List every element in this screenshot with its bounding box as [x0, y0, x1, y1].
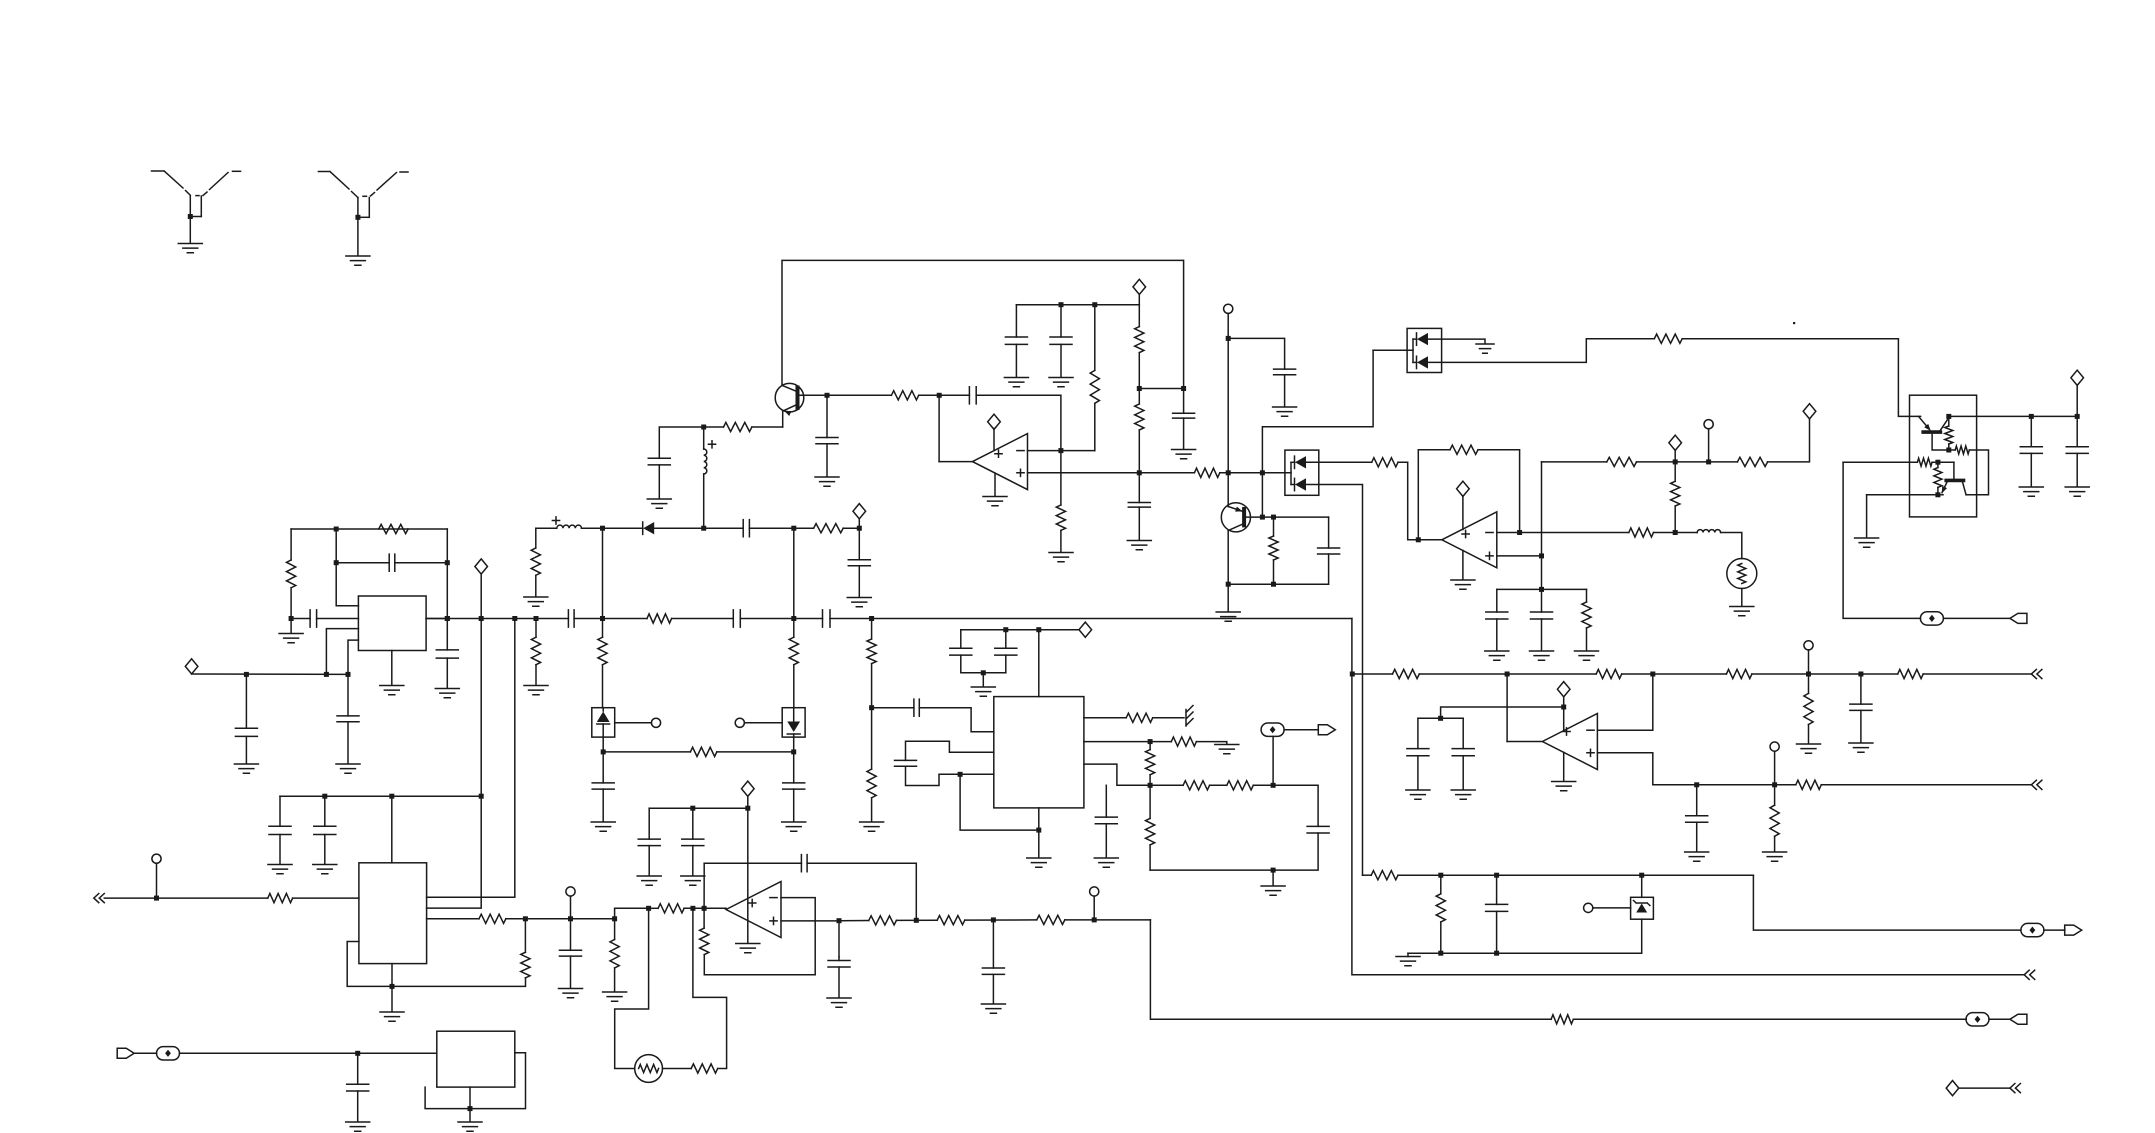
wire: [1417, 756, 1419, 790]
wire: [1060, 451, 1062, 505]
ground: [1575, 651, 1599, 660]
resistor R57: [1551, 1015, 1573, 1024]
wire: [1496, 911, 1498, 953]
node: [334, 527, 339, 532]
wire: [1593, 907, 1631, 909]
wire: [391, 986, 393, 1011]
resistor R51: [658, 904, 684, 913]
capacitor C23: [1318, 548, 1340, 554]
resistor R6: [1135, 404, 1144, 430]
wire: [1328, 517, 1330, 548]
offpage chevron: [2010, 1084, 2021, 1093]
wire bus2: [1752, 673, 1898, 675]
wire pinR2: [1084, 741, 1171, 743]
node: [1673, 530, 1678, 535]
wire: [1398, 874, 1753, 876]
plus label U1: [1017, 469, 1024, 476]
wire: [1441, 707, 1564, 718]
ground: [681, 876, 705, 885]
node bus: [534, 616, 539, 621]
node: [914, 918, 919, 923]
wire right pin loop: [425, 1053, 525, 1109]
plus mark: [708, 441, 715, 448]
resistor R24: [1607, 457, 1637, 466]
wire: [1753, 875, 2021, 930]
node: [523, 916, 528, 921]
resistor R31: [1934, 468, 1942, 488]
power diamond D10: [742, 781, 755, 796]
node: [1148, 739, 1153, 744]
wire: [1496, 619, 1498, 651]
ground: [1261, 886, 1285, 895]
resistor R8: [814, 524, 844, 533]
wire pinA: [919, 708, 994, 732]
ground: [981, 1004, 1005, 1013]
ground: [1406, 790, 1430, 799]
wire: [871, 798, 873, 822]
wire top rail: [291, 528, 447, 530]
wire: [982, 673, 984, 687]
wire noninverting input U2: [1497, 555, 1542, 557]
thermistor lamp TH1: [1727, 559, 1757, 589]
plus label U3: [1587, 749, 1594, 756]
resistor R53: [700, 928, 709, 955]
wire: [793, 737, 795, 783]
wire: [104, 897, 267, 899]
node: [389, 794, 394, 799]
minus label U3: [1587, 729, 1594, 731]
resistor R17: [379, 524, 408, 533]
power diamond D4: [185, 659, 198, 674]
wire pin stub: [347, 942, 392, 987]
wire: [1284, 729, 1318, 731]
node bus: [445, 616, 450, 621]
zener diode Z1 in box: [1631, 897, 1654, 919]
oval ferrite FB2: [1261, 723, 1284, 736]
transistor Q3B: [1942, 462, 1966, 495]
wire: [535, 665, 537, 685]
node: [355, 215, 360, 220]
wire: [446, 529, 448, 619]
wire: [965, 919, 1037, 921]
wire: [1741, 589, 1743, 607]
resistor R3: [1090, 370, 1099, 403]
wire: [1774, 751, 1776, 805]
wire: [992, 920, 994, 968]
wire power stem U6: [747, 808, 749, 943]
wire: [961, 655, 1006, 673]
wire: [1149, 785, 1151, 818]
resistor R12: [598, 637, 607, 665]
wire: [245, 674, 247, 728]
ground: [2019, 487, 2043, 496]
wire: [2076, 416, 2078, 446]
wire: [1328, 554, 1330, 584]
ground: [1094, 858, 1118, 867]
capacitor C25: [1531, 612, 1553, 619]
wire: [1105, 824, 1107, 858]
wire: [279, 796, 281, 826]
node: [1438, 716, 1443, 721]
wire: [1138, 353, 1140, 389]
wire: [1065, 919, 1151, 921]
wire: [290, 619, 292, 634]
wire: [1210, 784, 1227, 786]
power pin U1: [993, 429, 995, 451]
ground: [847, 598, 871, 607]
ground: [346, 256, 370, 265]
wire: [1094, 305, 1096, 371]
ground: [1855, 538, 1879, 547]
ground: [1027, 858, 1051, 867]
wire: [279, 835, 281, 865]
plus power U1: [995, 450, 1002, 457]
wire: [614, 919, 616, 940]
wire: [839, 920, 869, 922]
wire: [1496, 875, 1498, 904]
wire: [1641, 919, 1643, 953]
resistor R19: [1269, 536, 1278, 560]
wire pin3: [427, 918, 479, 920]
wire: [906, 766, 994, 785]
wire: [1843, 462, 1920, 618]
wire: [1220, 472, 1263, 474]
wire: [1496, 589, 1498, 612]
node: [1806, 672, 1811, 677]
node: [1271, 868, 1276, 873]
wire: [717, 751, 794, 753]
node: [825, 393, 830, 398]
ground: [1476, 344, 1494, 353]
wire V+ rail: [1016, 304, 1139, 306]
ground: [603, 992, 627, 1001]
resistor R56: [1037, 915, 1065, 924]
capacitor C39: [560, 950, 582, 956]
wire: [2030, 416, 2032, 446]
wire: [1150, 833, 1318, 870]
ground: [647, 499, 671, 508]
connector flag: [2065, 925, 2082, 935]
node: [1858, 672, 1863, 677]
wire: [2044, 929, 2065, 931]
wire: [1674, 506, 1676, 533]
wire: [858, 519, 860, 560]
wire: [1708, 429, 1710, 462]
wire: [793, 789, 795, 821]
resistor R23: [1629, 528, 1654, 537]
wire: [1227, 313, 1229, 504]
node: [869, 705, 874, 710]
node: [244, 672, 249, 677]
capacitor C42: [828, 961, 850, 968]
node: [468, 1106, 473, 1111]
node: [1092, 917, 1097, 922]
node: [1706, 459, 1711, 464]
ground: [1685, 852, 1709, 861]
ground: [1216, 612, 1240, 621]
antenna AN2: [318, 172, 408, 218]
node: [958, 772, 963, 777]
ground pin U1: [994, 473, 996, 496]
power diamond D11: [1946, 1081, 1959, 1096]
connector flag: [2010, 1014, 2027, 1024]
ground: [1396, 957, 1420, 966]
wire: [602, 789, 604, 821]
node: [600, 526, 605, 531]
ground: [1763, 852, 1787, 861]
capacitor C41: [682, 839, 704, 846]
wire: [1138, 305, 1140, 327]
wire V+ rail: [961, 629, 1079, 631]
resistor R40: [1171, 737, 1196, 746]
node bus: [479, 616, 484, 621]
minus label U1: [1017, 450, 1024, 452]
wire: [1696, 785, 1698, 816]
wire: [357, 217, 359, 255]
wire: [1005, 655, 1007, 673]
ground: [313, 865, 337, 874]
wire bottom pin: [391, 651, 393, 686]
IC U4: [994, 697, 1084, 808]
ground: [1127, 541, 1151, 550]
node: [154, 896, 159, 901]
terminal: [651, 718, 660, 727]
IC U5c: [437, 1031, 515, 1087]
ground: [860, 822, 884, 831]
emitter arrow Q3A: [1924, 424, 1931, 431]
node: [1639, 873, 1644, 878]
capacitor C17: [310, 610, 317, 627]
node: [1935, 460, 1940, 465]
node: [1271, 515, 1276, 520]
capacitor C4: [1128, 503, 1150, 508]
LED DB in box: [782, 708, 805, 737]
power diamond U3: [1557, 682, 1570, 697]
capacitor C11: [733, 610, 740, 627]
wire: [648, 808, 650, 839]
wire: [1497, 588, 1587, 590]
capacitor C37: [1095, 817, 1117, 824]
wire: [919, 394, 970, 396]
terminal: [152, 854, 161, 863]
wire: [192, 673, 348, 675]
capacitor C5: [1005, 337, 1027, 344]
wire: [1094, 403, 1096, 450]
ground: [1049, 553, 1073, 562]
wire emitter Q1: [752, 426, 783, 428]
node: [355, 1051, 360, 1056]
power pin U3: [1563, 697, 1565, 731]
wire: [1015, 344, 1017, 377]
node: [791, 749, 796, 754]
wire cap rail: [336, 562, 389, 564]
wire: [838, 921, 840, 957]
ground: [1004, 378, 1028, 387]
wire: [1150, 920, 1551, 1019]
capacitor C31: [1686, 816, 1708, 823]
wire bottom pin: [469, 1087, 471, 1109]
wire pinR1: [1084, 717, 1126, 719]
resistor R49: [479, 914, 506, 923]
capacitor C7: [1173, 413, 1195, 418]
wire: [1138, 430, 1140, 473]
antenna AN1: [152, 171, 241, 217]
ground: [346, 1122, 370, 1131]
wire: [976, 395, 1061, 450]
wire: [1674, 462, 1676, 481]
capacitor C16: [436, 650, 458, 658]
node: [1003, 627, 1008, 632]
wire noninverting input U3: [1597, 753, 1795, 785]
ground: [1215, 745, 1239, 754]
resistor R30: [1917, 458, 1932, 466]
wire: [704, 898, 815, 975]
dual diode U8: [1262, 450, 1318, 495]
ground: [591, 822, 615, 831]
wire: [654, 527, 743, 529]
wire: [524, 919, 526, 953]
capacitor C12: [823, 610, 831, 627]
capacitor C29: [1407, 749, 1429, 756]
node: [1416, 537, 1421, 542]
node: [1539, 553, 1544, 558]
resistor R50: [610, 940, 619, 969]
ground: [1730, 607, 1754, 616]
capacitor C9: [848, 560, 870, 566]
connector flag: [117, 1048, 134, 1058]
node: [1226, 336, 1231, 341]
wire: [189, 217, 191, 244]
wire bus: [740, 618, 822, 620]
transistor Q3A: [1919, 416, 1949, 450]
resistor R16: [867, 769, 876, 798]
wire: [1272, 870, 1274, 885]
node: [701, 425, 706, 430]
resistor R52: [691, 1064, 718, 1073]
power diamond D7: [1803, 404, 1816, 419]
ground: [2065, 487, 2089, 496]
wire: [1149, 775, 1151, 786]
resistor R28: [1945, 426, 1953, 444]
wire: [1138, 507, 1140, 540]
capacitor C2: [969, 387, 976, 404]
wire: [1149, 742, 1151, 750]
wire: [293, 897, 359, 899]
wire: [872, 707, 914, 709]
node: [791, 526, 796, 531]
wire: [1462, 756, 1464, 790]
wire: [535, 619, 537, 638]
capacitor C34: [914, 699, 919, 716]
wire inverting input U3: [1597, 674, 1652, 730]
wire: [1541, 619, 1543, 651]
wire: [291, 618, 310, 620]
op-amp U1: [973, 434, 1028, 490]
wire: [747, 796, 749, 808]
power diamond U1: [988, 414, 1001, 429]
wire: [602, 619, 604, 638]
wire: [1586, 628, 1588, 651]
resistor R45: [1371, 871, 1398, 880]
ground: [336, 764, 360, 773]
wire collector feedback top: [782, 260, 1184, 388]
wire: [427, 574, 482, 908]
ground pin U3: [1563, 752, 1565, 781]
wire: [1138, 295, 1140, 305]
wire emitter Q3B: [1867, 494, 1943, 496]
power pin U2: [1462, 496, 1464, 529]
inductor L1: [704, 449, 707, 474]
capacitor C36: [1307, 826, 1329, 833]
offpage chevron: [2024, 970, 2035, 979]
wire pinR3: [1084, 764, 1183, 785]
wire output U1: [939, 395, 972, 461]
node: [1438, 873, 1443, 878]
capacitor C10: [568, 610, 574, 627]
wire: [535, 575, 537, 596]
ground: [1273, 407, 1297, 416]
wire: [793, 528, 795, 618]
wire: [1284, 375, 1286, 407]
wire: [1573, 1018, 1966, 1020]
IC U5a: [358, 596, 426, 651]
resistor R7: [1135, 327, 1144, 353]
node: [1137, 386, 1142, 391]
node: [837, 918, 842, 923]
resistor R38: [1770, 805, 1779, 836]
resistor R5: [1056, 505, 1065, 530]
resistor R15: [867, 639, 876, 664]
capacitor C38: [1486, 904, 1508, 911]
wire cap branch: [704, 862, 801, 864]
resistor R47: [268, 894, 293, 903]
wire: [1253, 785, 1318, 826]
power diamond D5: [475, 559, 488, 574]
wire: [446, 658, 448, 688]
wire inverting input U2: [1497, 532, 1629, 534]
resistor R11: [531, 637, 540, 665]
wire: [280, 795, 481, 797]
ground: [1451, 790, 1475, 799]
wire: [1183, 418, 1185, 449]
node: [1772, 782, 1777, 787]
node: [1271, 582, 1276, 587]
wire: [793, 619, 795, 638]
capacitor C35: [895, 760, 917, 766]
wire: [2030, 453, 2032, 486]
wire: [615, 908, 649, 1068]
wire noninverting input U1: [1028, 472, 1140, 474]
transistor Q1: [775, 383, 804, 427]
wire pinC loop: [960, 774, 1039, 830]
node: [1148, 783, 1153, 788]
wire: [793, 665, 795, 708]
wire: [1674, 450, 1676, 462]
wire: [1418, 717, 1463, 719]
wire: [602, 665, 604, 708]
wire output U3: [1507, 674, 1542, 742]
capacitor C22: [1274, 369, 1296, 375]
wire: [1352, 619, 2024, 975]
ground: [559, 989, 583, 998]
wire output U2: [1418, 539, 1442, 541]
wire: [615, 722, 652, 724]
resistor R20: [1372, 458, 1398, 467]
terminal: [1090, 887, 1099, 896]
node: [334, 560, 339, 565]
node: [390, 984, 395, 989]
capacitor C13: [592, 783, 614, 789]
